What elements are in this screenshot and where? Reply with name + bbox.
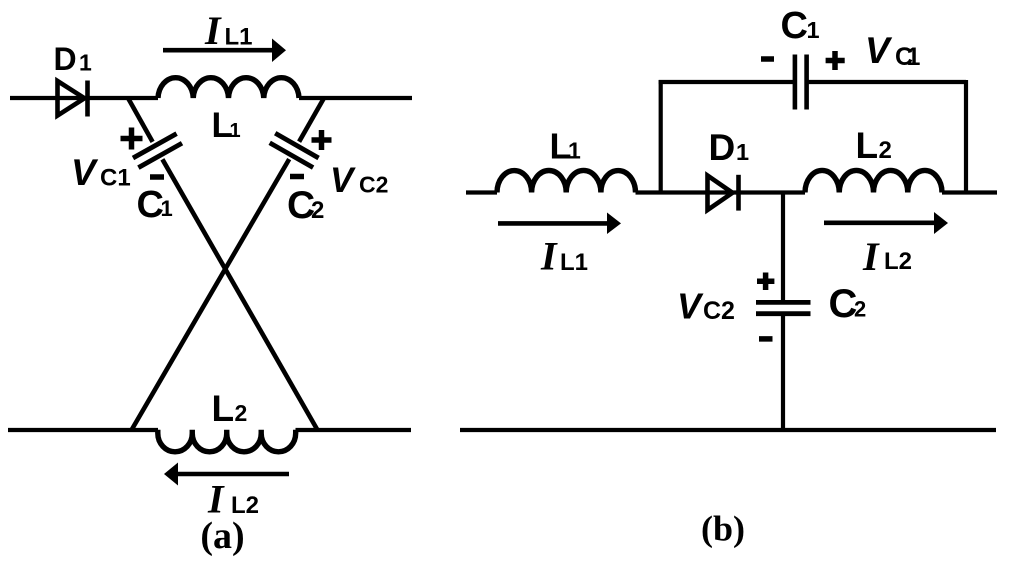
svg-text:V: V <box>330 161 356 200</box>
inductor L2 (b) <box>805 170 942 192</box>
plus sign at C2 (a) <box>312 130 332 150</box>
svg-text:I: I <box>204 8 222 53</box>
svg-text:1: 1 <box>230 120 241 142</box>
svg-text:V: V <box>677 286 704 327</box>
label V_C1 (a) <box>71 152 131 193</box>
minus sign at C2 (a) <box>290 174 304 180</box>
wire top-right segment (a) <box>299 96 412 100</box>
label C2 (a) <box>287 184 324 227</box>
diode D1 triangle (b) <box>708 176 733 211</box>
label V_C1 (b) <box>865 30 921 71</box>
svg-text:L: L <box>212 388 235 429</box>
capacitor C1 plate 1 (b) <box>793 55 798 110</box>
capacitor C2 plate 1 (b) <box>756 300 811 305</box>
minus sign at C2 (b) <box>759 336 773 342</box>
label I_L2 (b) <box>862 234 912 279</box>
svg-text:L2: L2 <box>884 248 912 275</box>
wire bottom-right segment (a) <box>296 428 412 432</box>
wire left diagonal lower segment (a) <box>162 159 317 430</box>
inductor L2 (a) <box>158 430 296 452</box>
label L2 (b) <box>856 125 892 166</box>
wire C2 branch lower vertical (b) <box>781 314 785 430</box>
wire right diagonal upper segment (a) <box>299 98 324 142</box>
wire bottom-left segment (a) <box>8 428 158 432</box>
svg-text:2: 2 <box>879 137 892 164</box>
svg-text:C2: C2 <box>359 172 388 198</box>
label D1 (a) <box>54 41 93 77</box>
wire middle-left segment (b) <box>466 190 497 194</box>
svg-text:1: 1 <box>161 196 173 221</box>
svg-text:1: 1 <box>568 138 581 164</box>
svg-text:L: L <box>856 125 879 166</box>
svg-text:2: 2 <box>235 400 248 426</box>
svg-text:D: D <box>709 127 736 168</box>
svg-text:C2: C2 <box>703 297 735 325</box>
svg-text:(b): (b) <box>701 509 745 549</box>
label V_C2 (b) <box>677 286 735 327</box>
wire top-left segment (b) <box>659 80 793 84</box>
wire right vertical from top branch (b) <box>964 80 968 193</box>
current arrow I_L1 (a) <box>163 39 286 63</box>
svg-text:L1: L1 <box>560 249 588 276</box>
plus sign at C1 (b) <box>826 51 845 70</box>
svg-text:1: 1 <box>807 17 820 43</box>
plus sign at C2 (b) <box>757 273 774 291</box>
svg-text:I: I <box>540 234 558 279</box>
wire left diagonal upper segment (a) <box>128 98 153 142</box>
capacitor C1 plate 2 (a) <box>138 143 182 167</box>
svg-text:C1: C1 <box>100 165 131 192</box>
svg-text:2: 2 <box>311 197 324 224</box>
svg-text:V: V <box>865 30 893 71</box>
wire top-right segment (b) <box>809 80 967 84</box>
capacitor C2 plate 1 (a) <box>275 133 318 158</box>
inductor L1 (a) <box>158 78 299 98</box>
caption (b) <box>701 509 745 549</box>
current arrow I_L2 (a) <box>164 463 289 486</box>
capacitor C2 plate 2 (a) <box>270 143 313 168</box>
inductor L1 (b) <box>497 170 636 192</box>
wire middle-right segment (b) <box>942 190 997 194</box>
svg-text:(a): (a) <box>200 515 244 557</box>
label L2 (a) <box>212 388 248 429</box>
wire bottom ground rail (b) <box>460 428 996 432</box>
label C1 (a) <box>137 184 173 226</box>
wire left vertical to top branch (b) <box>659 80 663 193</box>
label C1 (b) <box>781 5 820 47</box>
minus sign at C1 (a) <box>150 174 164 180</box>
svg-text:I: I <box>862 234 880 279</box>
diode D1 triangle (a) <box>58 81 85 116</box>
svg-text:L1: L1 <box>225 24 253 51</box>
diode D1 cathode bar (b) <box>736 175 741 211</box>
svg-text:1: 1 <box>907 43 921 71</box>
svg-text:1: 1 <box>736 139 749 165</box>
label C2 (b) <box>829 282 867 326</box>
label D1 (b) <box>709 127 750 168</box>
svg-text:1: 1 <box>79 50 92 76</box>
svg-text:2: 2 <box>854 297 866 322</box>
plus sign at C1 (a) <box>121 128 143 150</box>
minus sign at C1 (b) <box>761 56 774 62</box>
wire C2 branch upper vertical (b) <box>781 191 785 303</box>
capacitor C2 plate 2 (b) <box>756 311 811 316</box>
label I_L2 (a) <box>207 477 259 522</box>
svg-text:D: D <box>54 41 77 77</box>
caption (a) <box>200 515 244 557</box>
label I_L1 (a) <box>204 8 253 53</box>
current arrow I_L1 (b) <box>498 213 621 235</box>
wire middle-center segment (b) <box>636 190 806 194</box>
current arrow I_L2 (b) <box>824 212 948 234</box>
capacitor C1 plate 2 (b) <box>804 55 809 110</box>
label L1 (a) <box>212 106 241 145</box>
diode D1 cathode bar (a) <box>85 81 90 117</box>
capacitor C1 plate 1 (a) <box>133 134 177 158</box>
label L1 (b) <box>550 126 582 167</box>
svg-text:V: V <box>71 152 99 193</box>
label V_C2 (a) <box>330 161 388 200</box>
svg-text:C: C <box>781 5 808 47</box>
wire right diagonal lower segment (a) <box>132 159 290 430</box>
wire top-left segment (a) <box>10 96 158 100</box>
label I_L1 (b) <box>540 234 588 279</box>
